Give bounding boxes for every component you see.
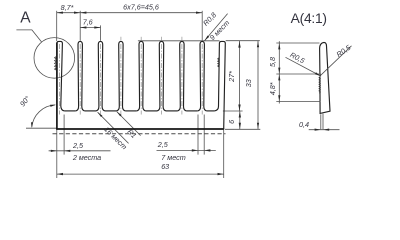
wire: extension line fin1 centerline up	[56, 11, 58, 41]
dimension 33 vertical line	[257, 41, 259, 130]
wire: slot floor extension right	[223, 110, 243, 112]
heatsink profile left edge (thick outline)	[56, 43, 58, 130]
fin 1 (left end wall) outline	[57, 41, 65, 111]
leader 16 мест (R1 slot fillets)	[98, 112, 129, 143]
leader R0.8 9 мест	[205, 14, 228, 41]
hidden dashed line below base	[53, 133, 226, 135]
dimension 0.4: line, arrows, label	[309, 129, 340, 131]
detail fin break squiggle	[319, 77, 320, 94]
svg-text:8,7*: 8,7*	[61, 3, 74, 12]
fin centerlines dash-dot	[59, 44, 61, 115]
dimension 63: extension lines	[56, 130, 58, 178]
svg-text:6: 6	[227, 120, 236, 124]
wire: extension line fin8 center up	[201, 11, 203, 41]
fins 2-8 outlines	[76, 41, 207, 111]
leader to label A	[16, 30, 41, 42]
detail: extension lines 5.8 / 4.8	[276, 42, 319, 44]
svg-text:27*: 27*	[227, 71, 236, 83]
wire: top extension line right	[226, 40, 260, 42]
leader R1	[117, 112, 141, 136]
dimension 6 vertical line	[239, 111, 241, 129]
dimension 6x7.6=45.6 line	[80, 12, 202, 14]
svg-text:0,4: 0,4	[299, 120, 309, 129]
wire: tip tangent shelf line	[138, 40, 220, 42]
leader R0.5 left	[286, 57, 321, 76]
dimension 2.5 right: extension lines	[197, 115, 199, 155]
svg-text:A(4:1): A(4:1)	[291, 11, 327, 26]
svg-text:2 места: 2 места	[72, 153, 101, 162]
svg-text:5,8: 5,8	[268, 57, 277, 67]
dimension 0.4: extension lines	[320, 114, 322, 129]
fin 1 break squiggle	[55, 56, 57, 70]
svg-text:2,5: 2,5	[72, 141, 84, 150]
dimension 7.6 line	[80, 27, 100, 29]
dimension 2.5 left: extension line	[63, 115, 65, 155]
detail fin outline	[320, 42, 330, 113]
right end wall outline	[214, 41, 225, 129]
leader R0.5 right	[321, 46, 352, 75]
dimension 2.5 left: line and arrows	[49, 150, 111, 152]
heatsink base bottom (thick outline)	[56, 128, 224, 130]
angle 90 arc	[32, 105, 55, 127]
svg-text:33: 33	[244, 79, 253, 87]
svg-text:7 мест: 7 мест	[161, 153, 185, 162]
dimension 8.7* line	[57, 12, 80, 14]
angle 90 extension line	[26, 127, 57, 129]
dimension 63: line, arrows, label	[57, 173, 224, 175]
svg-text:A: A	[20, 10, 31, 27]
wire: base bottom extension right	[225, 128, 260, 130]
svg-text:4,8*: 4,8*	[268, 82, 277, 95]
dimension 27* vertical line	[239, 41, 241, 111]
right wall break squiggle	[218, 58, 220, 68]
svg-text:63: 63	[161, 162, 169, 171]
wire: extension line fin3 center up	[100, 25, 102, 40]
svg-text:2,5: 2,5	[157, 140, 169, 149]
detail circle A	[34, 38, 75, 79]
dimension 5.8 and 4.8* vertical line	[278, 41, 280, 103]
svg-text:6x7,6=45,6: 6x7,6=45,6	[123, 3, 159, 12]
dimension 2.5 right: line and arrows	[157, 149, 216, 151]
wire: extension line fin2 center up	[79, 11, 81, 41]
svg-text:7,6: 7,6	[83, 18, 93, 27]
slot floor segments	[64, 110, 75, 112]
